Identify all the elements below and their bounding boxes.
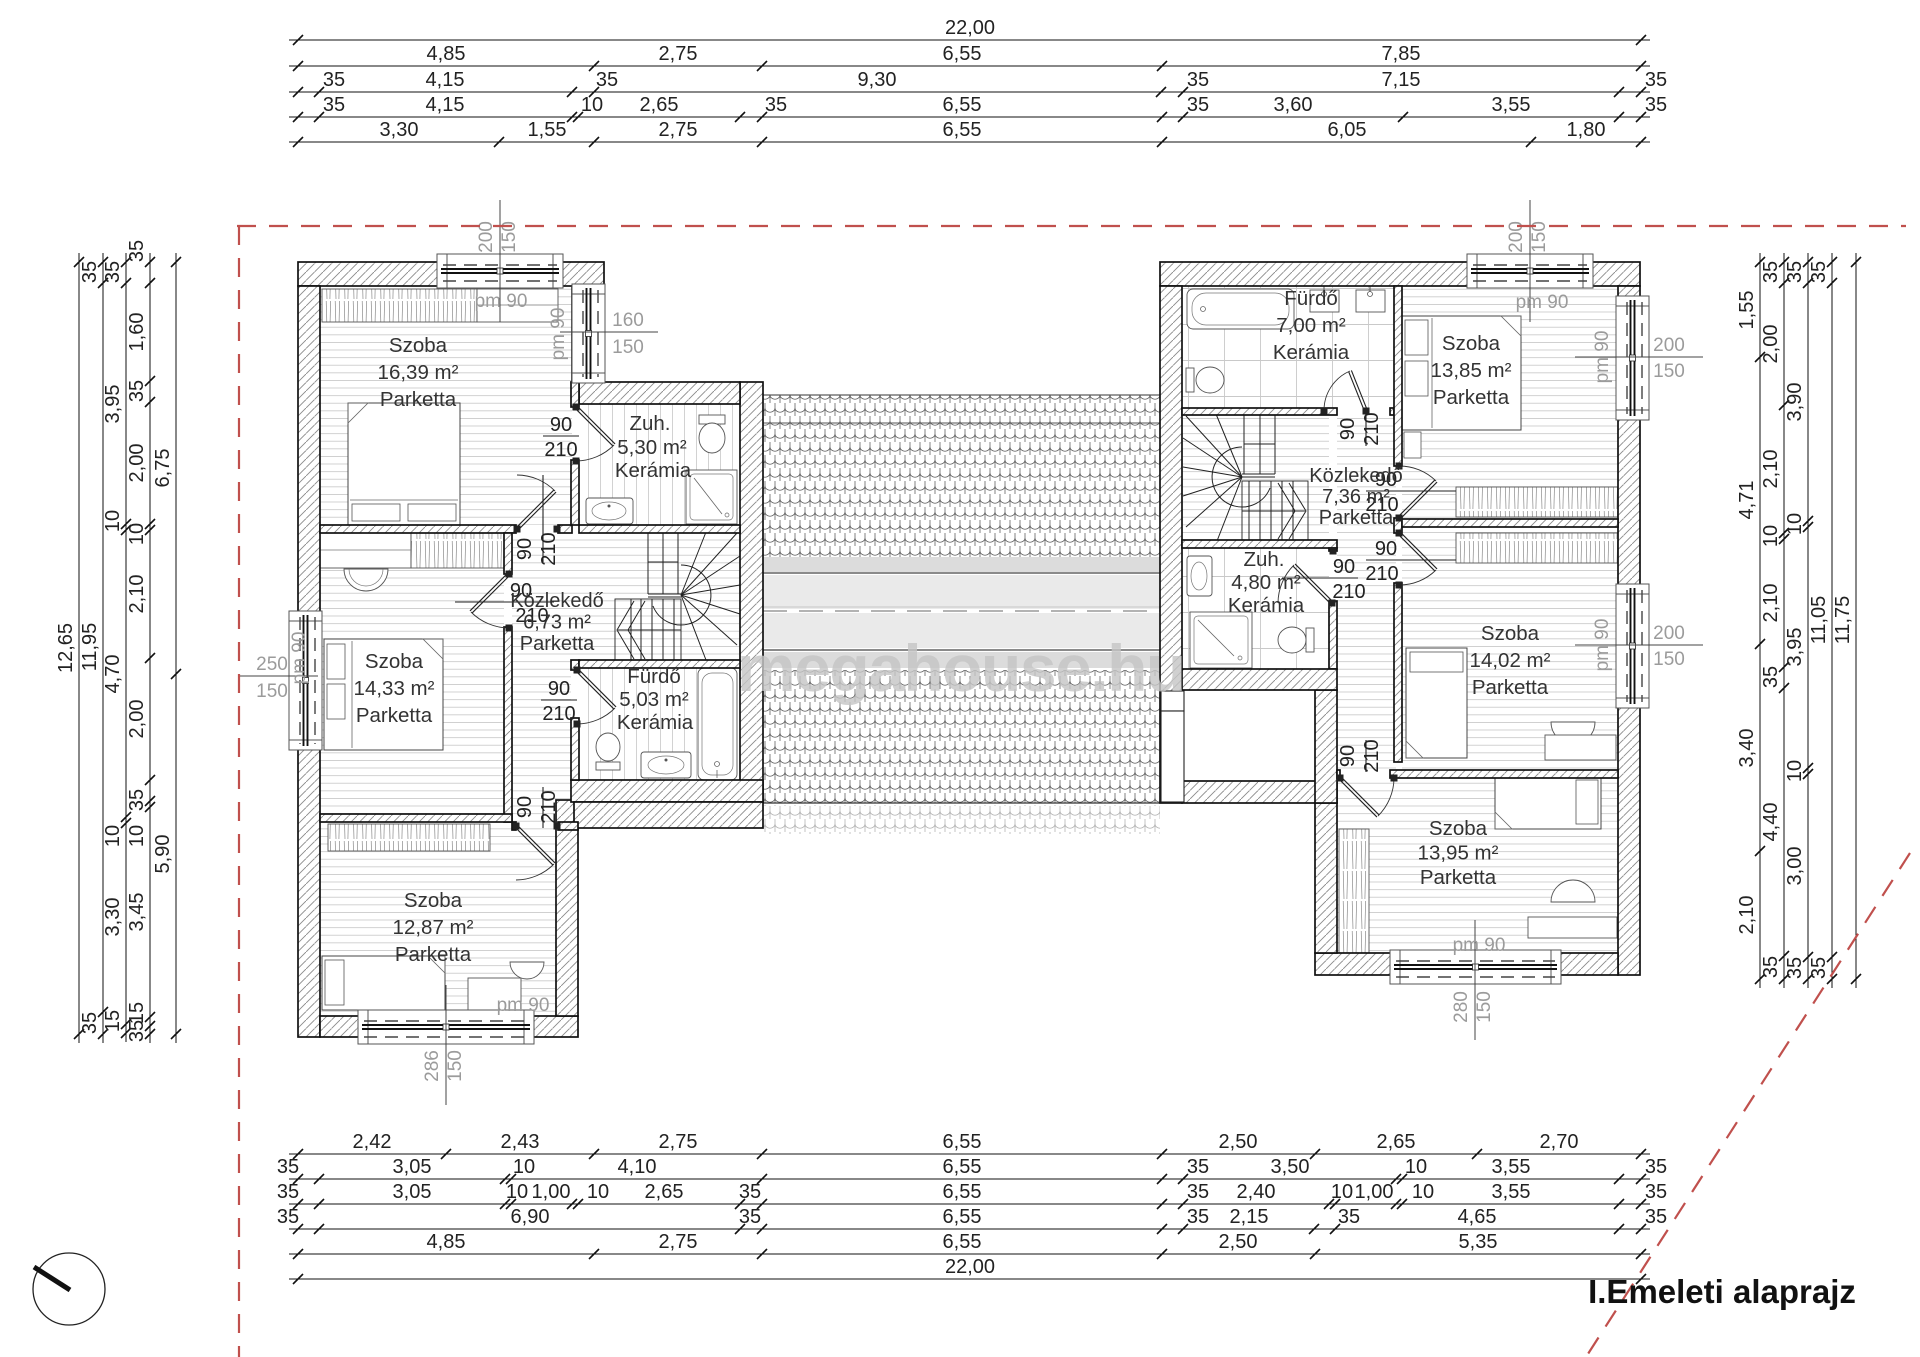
room label Szoba 14,02 — [1470, 622, 1551, 699]
dimension chain left col 4 — [126, 240, 155, 1043]
wall partition corridor/14,33 b — [504, 627, 512, 822]
svg-text:3,95: 3,95 — [102, 385, 124, 424]
wall partition hall/13,85 a — [1394, 286, 1402, 466]
room label Szoba 16,39 — [378, 334, 459, 411]
svg-text:90: 90 — [550, 414, 572, 436]
svg-text:3,60: 3,60 — [1274, 94, 1313, 116]
wall partition Zuh right east a — [1329, 548, 1337, 551]
door Szoba 13,95 — [1337, 775, 1398, 818]
window bottom Szoba 12,87 — [358, 1010, 534, 1044]
door Szoba 13,85 — [1396, 463, 1438, 522]
wall right unit west exterior — [1160, 286, 1182, 803]
door dim Szoba 14,02 90/210 — [1365, 538, 1456, 585]
double bed Szoba 16,39 — [348, 403, 460, 525]
svg-text:15: 15 — [102, 1010, 124, 1032]
svg-text:6,05: 6,05 — [1328, 119, 1367, 141]
svg-text:3,95: 3,95 — [1784, 628, 1806, 667]
wardrobe Szoba 16,39 — [322, 289, 558, 322]
svg-text:210: 210 — [538, 532, 560, 565]
double bed Szoba 14,33 — [324, 639, 443, 750]
chair Szoba 12,87 — [510, 962, 544, 979]
svg-text:4,85: 4,85 — [427, 1231, 466, 1253]
svg-text:megahouse.hu: megahouse.hu — [737, 631, 1185, 705]
svg-text:10: 10 — [1784, 513, 1806, 535]
room label Szoba 13,95 — [1418, 817, 1499, 889]
chair Szoba 14,02 — [1551, 722, 1595, 744]
svg-text:6,55: 6,55 — [943, 94, 982, 116]
svg-text:6,55: 6,55 — [943, 43, 982, 65]
svg-text:pm 90: pm 90 — [1592, 619, 1613, 672]
floor stairs right floor — [1182, 415, 1329, 540]
wall partition corridor bottom b — [558, 822, 578, 830]
dimension chain right col 4 — [1808, 253, 1837, 988]
svg-text:35: 35 — [1760, 666, 1782, 688]
svg-text:2,75: 2,75 — [659, 1231, 698, 1253]
wall partition 16,39/Zuh b — [571, 460, 579, 525]
wall void east wall — [1315, 690, 1337, 803]
svg-text:5,30 m²: 5,30 m² — [617, 436, 687, 459]
svg-text:2,65: 2,65 — [645, 1181, 684, 1203]
dimension chain left col 6,75/5,90 — [152, 253, 181, 1043]
wall partition 16,39/14,33 b — [558, 525, 572, 533]
window dim top right 200/150 — [1506, 200, 1550, 322]
dimension chain left col 12,65 — [55, 253, 84, 1043]
window dim east r1 200/150 — [1575, 335, 1703, 382]
floor Kozlekedo right — [1337, 415, 1396, 770]
svg-text:Parketta: Parketta — [1472, 676, 1549, 699]
svg-text:210: 210 — [1361, 412, 1383, 445]
svg-text:6,55: 6,55 — [943, 1206, 982, 1228]
floor Szoba 16,39 — [320, 286, 572, 525]
wardrobe Szoba 13,85 — [1456, 487, 1618, 517]
svg-text:90: 90 — [1375, 538, 1397, 560]
svg-text:35: 35 — [1760, 956, 1782, 978]
staircase left unit — [615, 532, 740, 660]
svg-text:10: 10 — [1405, 1156, 1427, 1178]
window dim east 16,39 160/150 — [560, 310, 658, 358]
svg-text:3,90: 3,90 — [1784, 383, 1806, 422]
svg-text:2,10: 2,10 — [1736, 896, 1758, 935]
svg-text:1,60: 1,60 — [126, 313, 148, 352]
svg-text:6,55: 6,55 — [943, 1181, 982, 1203]
window dim west 250/150 — [240, 654, 318, 702]
toilet Zuh right — [1278, 627, 1314, 653]
svg-text:2,70: 2,70 — [1540, 1131, 1579, 1153]
svg-text:1,00: 1,00 — [1355, 1181, 1394, 1203]
svg-text:3,50: 3,50 — [1271, 1156, 1310, 1178]
svg-text:35: 35 — [102, 261, 124, 283]
bathtub Furdo left — [698, 668, 737, 780]
svg-text:3,55: 3,55 — [1492, 1156, 1531, 1178]
svg-text:5,35: 5,35 — [1459, 1231, 1498, 1253]
svg-text:Zuh.: Zuh. — [1243, 548, 1284, 571]
window dim east r2 200/150 — [1575, 623, 1703, 670]
door dim Szoba 16,39 90/210 — [514, 475, 560, 566]
wall partition stairs/Zuh right — [1182, 540, 1337, 548]
svg-text:2,10: 2,10 — [1760, 584, 1782, 623]
wardrobe Szoba 13,95 — [1339, 829, 1369, 959]
svg-text:2,65: 2,65 — [1377, 1131, 1416, 1153]
svg-text:Parketta: Parketta — [1319, 507, 1394, 529]
plot boundary red dashed diagonal — [1586, 853, 1910, 1357]
svg-text:1,00: 1,00 — [532, 1181, 571, 1203]
svg-text:Zuh.: Zuh. — [629, 412, 670, 435]
svg-text:12,87 m²: 12,87 m² — [393, 916, 474, 939]
svg-text:35: 35 — [765, 94, 787, 116]
svg-text:280: 280 — [1451, 991, 1472, 1023]
armchair Szoba 14,33 — [344, 569, 388, 591]
svg-text:3,30: 3,30 — [380, 119, 419, 141]
dimension chain bottom row 1 — [289, 1131, 1650, 1159]
svg-text:2,40: 2,40 — [1237, 1181, 1276, 1203]
floor Furdo left — [579, 668, 740, 780]
svg-text:Szoba: Szoba — [1429, 817, 1488, 840]
svg-text:Szoba: Szoba — [404, 889, 463, 912]
svg-text:6,55: 6,55 — [943, 119, 982, 141]
svg-text:2,10: 2,10 — [126, 575, 148, 614]
floor Zuh right — [1182, 548, 1329, 669]
washbasin Furdo left — [641, 752, 691, 778]
svg-text:6,75: 6,75 — [152, 449, 174, 488]
svg-text:10: 10 — [513, 1156, 535, 1178]
svg-text:35: 35 — [1645, 94, 1667, 116]
svg-text:35: 35 — [1808, 261, 1830, 283]
svg-text:2,42: 2,42 — [353, 1131, 392, 1153]
svg-text:7,00 m²: 7,00 m² — [1276, 314, 1346, 337]
svg-text:2,75: 2,75 — [659, 1131, 698, 1153]
room label Furdo left — [617, 665, 694, 734]
door dim Zuh left 90/210 — [543, 414, 579, 461]
svg-text:35: 35 — [126, 380, 148, 402]
wall partition 13,85/14,02 — [1402, 519, 1618, 527]
svg-text:2,75: 2,75 — [659, 43, 698, 65]
door dim Szoba 14,33 90/210 — [455, 580, 554, 627]
svg-text:35: 35 — [1187, 1156, 1209, 1178]
washbasin Furdo right — [1356, 282, 1385, 312]
door Zuh left — [573, 404, 616, 465]
dimension chain top row C — [289, 69, 1667, 97]
wall Zuh top exterior — [579, 382, 740, 404]
svg-text:6,73 m²: 6,73 m² — [523, 612, 591, 634]
svg-text:4,15: 4,15 — [426, 69, 465, 91]
svg-text:35: 35 — [323, 94, 345, 116]
wall partition corridor bottom a — [512, 822, 516, 830]
double bed Szoba 13,85 — [1402, 316, 1521, 430]
svg-text:13,85 m²: 13,85 m² — [1431, 359, 1512, 382]
floor Szoba 14,02 — [1402, 527, 1618, 770]
wall left unit west exterior — [298, 286, 320, 1037]
door Furdo left — [574, 667, 617, 728]
dimension chain top row D — [289, 94, 1667, 122]
svg-text:35: 35 — [1187, 69, 1209, 91]
floor Kozlekedo left — [512, 533, 740, 660]
wall partition Furdo top — [579, 660, 740, 668]
svg-text:10: 10 — [102, 510, 124, 532]
desk Szoba 14,02 — [1545, 735, 1616, 760]
window east Szoba 13,85 — [1616, 296, 1649, 420]
svg-text:22,00: 22,00 — [945, 1256, 995, 1278]
wardrobe Szoba 14,02 — [1456, 533, 1618, 563]
door dim Szoba 13,85 90/210 — [1365, 469, 1456, 516]
dimension chain left col 11,95 — [79, 253, 108, 1043]
wall partition 14,33/12,87 — [320, 814, 512, 822]
washing machine Furdo right — [1310, 282, 1339, 312]
svg-text:7,36 m²: 7,36 m² — [1322, 486, 1390, 508]
chair Szoba 13,95 — [1551, 880, 1595, 902]
svg-text:Szoba: Szoba — [1481, 622, 1540, 645]
window top Szoba 13,85 — [1467, 254, 1593, 288]
svg-text:160: 160 — [612, 310, 644, 331]
svg-text:150: 150 — [1653, 649, 1685, 670]
svg-text:Parketta: Parketta — [1420, 866, 1497, 889]
svg-text:pm 90: pm 90 — [1592, 331, 1613, 384]
svg-text:150: 150 — [256, 681, 288, 702]
svg-text:4,80 m²: 4,80 m² — [1231, 571, 1301, 594]
svg-text:pm 90: pm 90 — [475, 291, 528, 312]
wall partition Furdo right bottom a — [1182, 408, 1337, 415]
svg-text:Parketta: Parketta — [356, 704, 433, 727]
svg-text:Közlekedő: Közlekedő — [1309, 465, 1402, 487]
svg-text:7,85: 7,85 — [1382, 43, 1421, 65]
wall left unit top exterior — [298, 262, 604, 286]
svg-text:2,65: 2,65 — [640, 94, 679, 116]
wall partition corridor/Furdo a — [571, 660, 579, 670]
svg-text:150: 150 — [1653, 361, 1685, 382]
plot boundary red dashed horizontal — [237, 225, 1906, 227]
svg-text:Szoba: Szoba — [365, 650, 424, 673]
dimension chain bottom row 5 — [289, 1231, 1650, 1259]
wardrobe Szoba 12,87 — [328, 824, 490, 851]
svg-text:35: 35 — [1645, 1206, 1667, 1228]
floor corridor leg — [512, 660, 571, 822]
svg-text:90: 90 — [1337, 745, 1359, 767]
svg-text:11,95: 11,95 — [79, 623, 101, 672]
wall partition hall/14,02 — [1394, 583, 1402, 762]
svg-text:5,03 m²: 5,03 m² — [619, 688, 689, 711]
svg-text:Fürdő: Fürdő — [627, 665, 681, 688]
svg-text:3,55: 3,55 — [1492, 94, 1531, 116]
dimension chain right col 2 — [1760, 253, 1789, 988]
svg-text:2,00: 2,00 — [1760, 325, 1782, 364]
svg-text:10: 10 — [126, 523, 148, 545]
wall Zuh/Furdo east exterior — [740, 382, 763, 800]
svg-text:150: 150 — [445, 1050, 466, 1082]
svg-text:Parketta: Parketta — [380, 388, 457, 411]
svg-text:10: 10 — [581, 94, 603, 116]
svg-text:2,00: 2,00 — [126, 700, 148, 739]
svg-text:35: 35 — [277, 1181, 299, 1203]
door Szoba 14,02 — [1396, 530, 1438, 589]
dimension chain top row E — [289, 119, 1650, 147]
window bottom Szoba 13,95 — [1390, 950, 1561, 984]
svg-text:I.Emeleti alaprajz: I.Emeleti alaprajz — [1588, 1273, 1856, 1310]
wall left unit bottom exterior — [320, 1016, 578, 1037]
window dim bottom left 286/150 — [422, 985, 466, 1105]
plot boundary red dashed vertical — [238, 226, 240, 1357]
svg-text:pm 90: pm 90 — [289, 632, 310, 685]
svg-text:Parketta: Parketta — [520, 633, 595, 655]
wall partition hall/13,85 b — [1394, 518, 1402, 533]
nightstand Szoba 13,85 — [1404, 432, 1421, 458]
svg-text:4,15: 4,15 — [426, 94, 465, 116]
svg-text:4,70: 4,70 — [102, 655, 124, 694]
svg-text:14,33 m²: 14,33 m² — [354, 677, 435, 700]
wall Szoba 12,87 east exterior — [556, 800, 578, 1016]
svg-text:4,10: 4,10 — [618, 1156, 657, 1178]
svg-text:1,55: 1,55 — [528, 119, 567, 141]
svg-text:pm 90: pm 90 — [548, 308, 569, 361]
svg-text:210: 210 — [1361, 739, 1383, 772]
room label Zuh right — [1228, 548, 1305, 617]
svg-text:4,85: 4,85 — [427, 43, 466, 65]
bed Szoba 13,95 — [1495, 776, 1601, 829]
svg-text:Szoba: Szoba — [389, 334, 448, 357]
svg-text:35: 35 — [1760, 261, 1782, 283]
svg-text:200: 200 — [1653, 335, 1685, 356]
svg-text:35: 35 — [1187, 1181, 1209, 1203]
door Szoba 14,33 — [470, 571, 513, 632]
svg-text:210: 210 — [544, 439, 577, 461]
svg-text:35: 35 — [739, 1206, 761, 1228]
room label Zuh left — [615, 412, 692, 482]
svg-text:35: 35 — [126, 789, 148, 811]
door Szoba 12,87 — [513, 823, 561, 881]
svg-text:7,15: 7,15 — [1382, 69, 1421, 91]
wall right unit top exterior — [1160, 262, 1640, 286]
dimension chain bottom row 2 — [277, 1156, 1667, 1184]
svg-text:11,75: 11,75 — [1832, 596, 1854, 645]
svg-text:10: 10 — [126, 825, 148, 847]
svg-text:4,65: 4,65 — [1458, 1206, 1497, 1228]
room label Furdo right — [1273, 287, 1350, 364]
svg-text:12,65: 12,65 — [55, 623, 77, 673]
svg-text:Kerámia: Kerámia — [615, 459, 692, 482]
room label Szoba 13,85 — [1431, 332, 1512, 409]
svg-text:35: 35 — [323, 69, 345, 91]
floor Szoba 14,33 — [320, 533, 504, 814]
shower Zuh right — [1190, 612, 1252, 668]
floor Zuh left — [579, 404, 740, 525]
svg-text:3,55: 3,55 — [1492, 1181, 1531, 1203]
door dim Zuh right 90/210 — [1282, 556, 1366, 603]
bed Szoba 14,02 — [1406, 648, 1467, 758]
svg-text:2,50: 2,50 — [1219, 1131, 1258, 1153]
svg-text:3,30: 3,30 — [102, 898, 124, 937]
staircase right unit — [1183, 414, 1308, 541]
svg-text:9,30: 9,30 — [858, 69, 897, 91]
svg-text:10: 10 — [1760, 525, 1782, 547]
svg-text:10: 10 — [1784, 760, 1806, 782]
svg-text:3,05: 3,05 — [393, 1156, 432, 1178]
svg-text:35: 35 — [1645, 1156, 1667, 1178]
svg-text:286: 286 — [422, 1050, 443, 1082]
wall partition 16,39/Zuh a — [571, 382, 579, 407]
wall partition 14,02/13,95 a — [1337, 770, 1340, 778]
door dim Szoba 12,87 90/210 — [514, 787, 560, 828]
toilet Furdo left — [596, 733, 620, 770]
door Furdo right — [1321, 370, 1370, 414]
room label Kozlekedo right — [1309, 465, 1402, 529]
svg-text:35: 35 — [1808, 957, 1830, 979]
wall partition Zuh right east b — [1329, 601, 1337, 669]
svg-text:10: 10 — [1412, 1181, 1434, 1203]
north symbol — [33, 1253, 105, 1325]
dimension chain bottom row 4 — [277, 1206, 1667, 1234]
dimension chain right col 1 — [1736, 253, 1765, 988]
svg-text:210: 210 — [1332, 581, 1365, 603]
wall partition 16,39/14,33 a — [320, 525, 516, 533]
floor Szoba 13,95 — [1337, 778, 1618, 953]
wall partition corridor/14,33 a — [504, 533, 512, 574]
svg-text:2,00: 2,00 — [126, 444, 148, 483]
svg-text:90: 90 — [548, 678, 570, 700]
svg-text:35: 35 — [79, 1012, 101, 1034]
svg-text:200: 200 — [1653, 623, 1685, 644]
wall terrace strip below Furdo — [574, 802, 763, 828]
window top Szoba 16,39 — [437, 254, 563, 288]
svg-text:4,40: 4,40 — [1760, 803, 1782, 842]
door dim Furdo left 90/210 — [541, 678, 577, 725]
svg-text:4,71: 4,71 — [1736, 481, 1758, 520]
svg-text:Fürdő: Fürdő — [1284, 287, 1338, 310]
wall Furdo bottom exterior — [571, 780, 763, 802]
roof between units — [763, 395, 1160, 834]
svg-text:10: 10 — [1331, 1181, 1353, 1203]
door Szoba 16,39 — [514, 475, 561, 533]
bed Szoba 12,87 — [322, 956, 445, 1010]
svg-text:90: 90 — [514, 796, 536, 818]
floor Szoba 12,87 — [320, 822, 556, 1016]
svg-text:22,00: 22,00 — [945, 17, 995, 39]
window east Szoba 14,02 — [1616, 584, 1649, 708]
svg-text:210: 210 — [1365, 563, 1398, 585]
toilet Furdo right — [1186, 367, 1224, 393]
svg-text:35: 35 — [1645, 69, 1667, 91]
wardrobe Szoba 14,33 — [320, 532, 505, 568]
svg-text:pm 90: pm 90 — [497, 995, 550, 1016]
svg-text:Szoba: Szoba — [1442, 332, 1501, 355]
svg-text:6,55: 6,55 — [943, 1231, 982, 1253]
svg-text:3,45: 3,45 — [126, 893, 148, 932]
window east Szoba 16,39 — [572, 284, 605, 383]
dimension chain right col 5 — [1832, 253, 1861, 988]
svg-text:150: 150 — [612, 337, 644, 358]
toilet Zuh left — [699, 415, 725, 453]
svg-text:6,90: 6,90 — [511, 1206, 550, 1228]
window dim top left 200/150 — [476, 200, 520, 322]
svg-text:35: 35 — [126, 240, 148, 262]
dimension chain right col 3 — [1784, 253, 1813, 988]
dimension chain bottom 22,00 — [289, 1256, 1650, 1284]
svg-text:35: 35 — [596, 69, 618, 91]
door Zuh right — [1278, 548, 1337, 607]
svg-text:10: 10 — [506, 1181, 528, 1203]
wall Szoba 13,95 west exterior — [1315, 803, 1337, 953]
svg-text:1,55: 1,55 — [1736, 291, 1758, 330]
wall partition Furdo right bottom b — [1390, 408, 1394, 415]
wall partition Zuh right bottom — [1182, 669, 1337, 690]
svg-text:90: 90 — [1337, 418, 1359, 440]
duct box right unit — [1161, 691, 1184, 711]
svg-text:3,05: 3,05 — [393, 1181, 432, 1203]
wall partition corridor/Furdo b — [571, 718, 579, 780]
wall partition 14,02/13,95 b — [1390, 770, 1618, 778]
svg-text:35: 35 — [1187, 1206, 1209, 1228]
svg-text:11,05: 11,05 — [1808, 596, 1830, 645]
room label Kozlekedo left — [510, 590, 603, 655]
svg-text:35: 35 — [1187, 94, 1209, 116]
svg-text:10: 10 — [102, 825, 124, 847]
